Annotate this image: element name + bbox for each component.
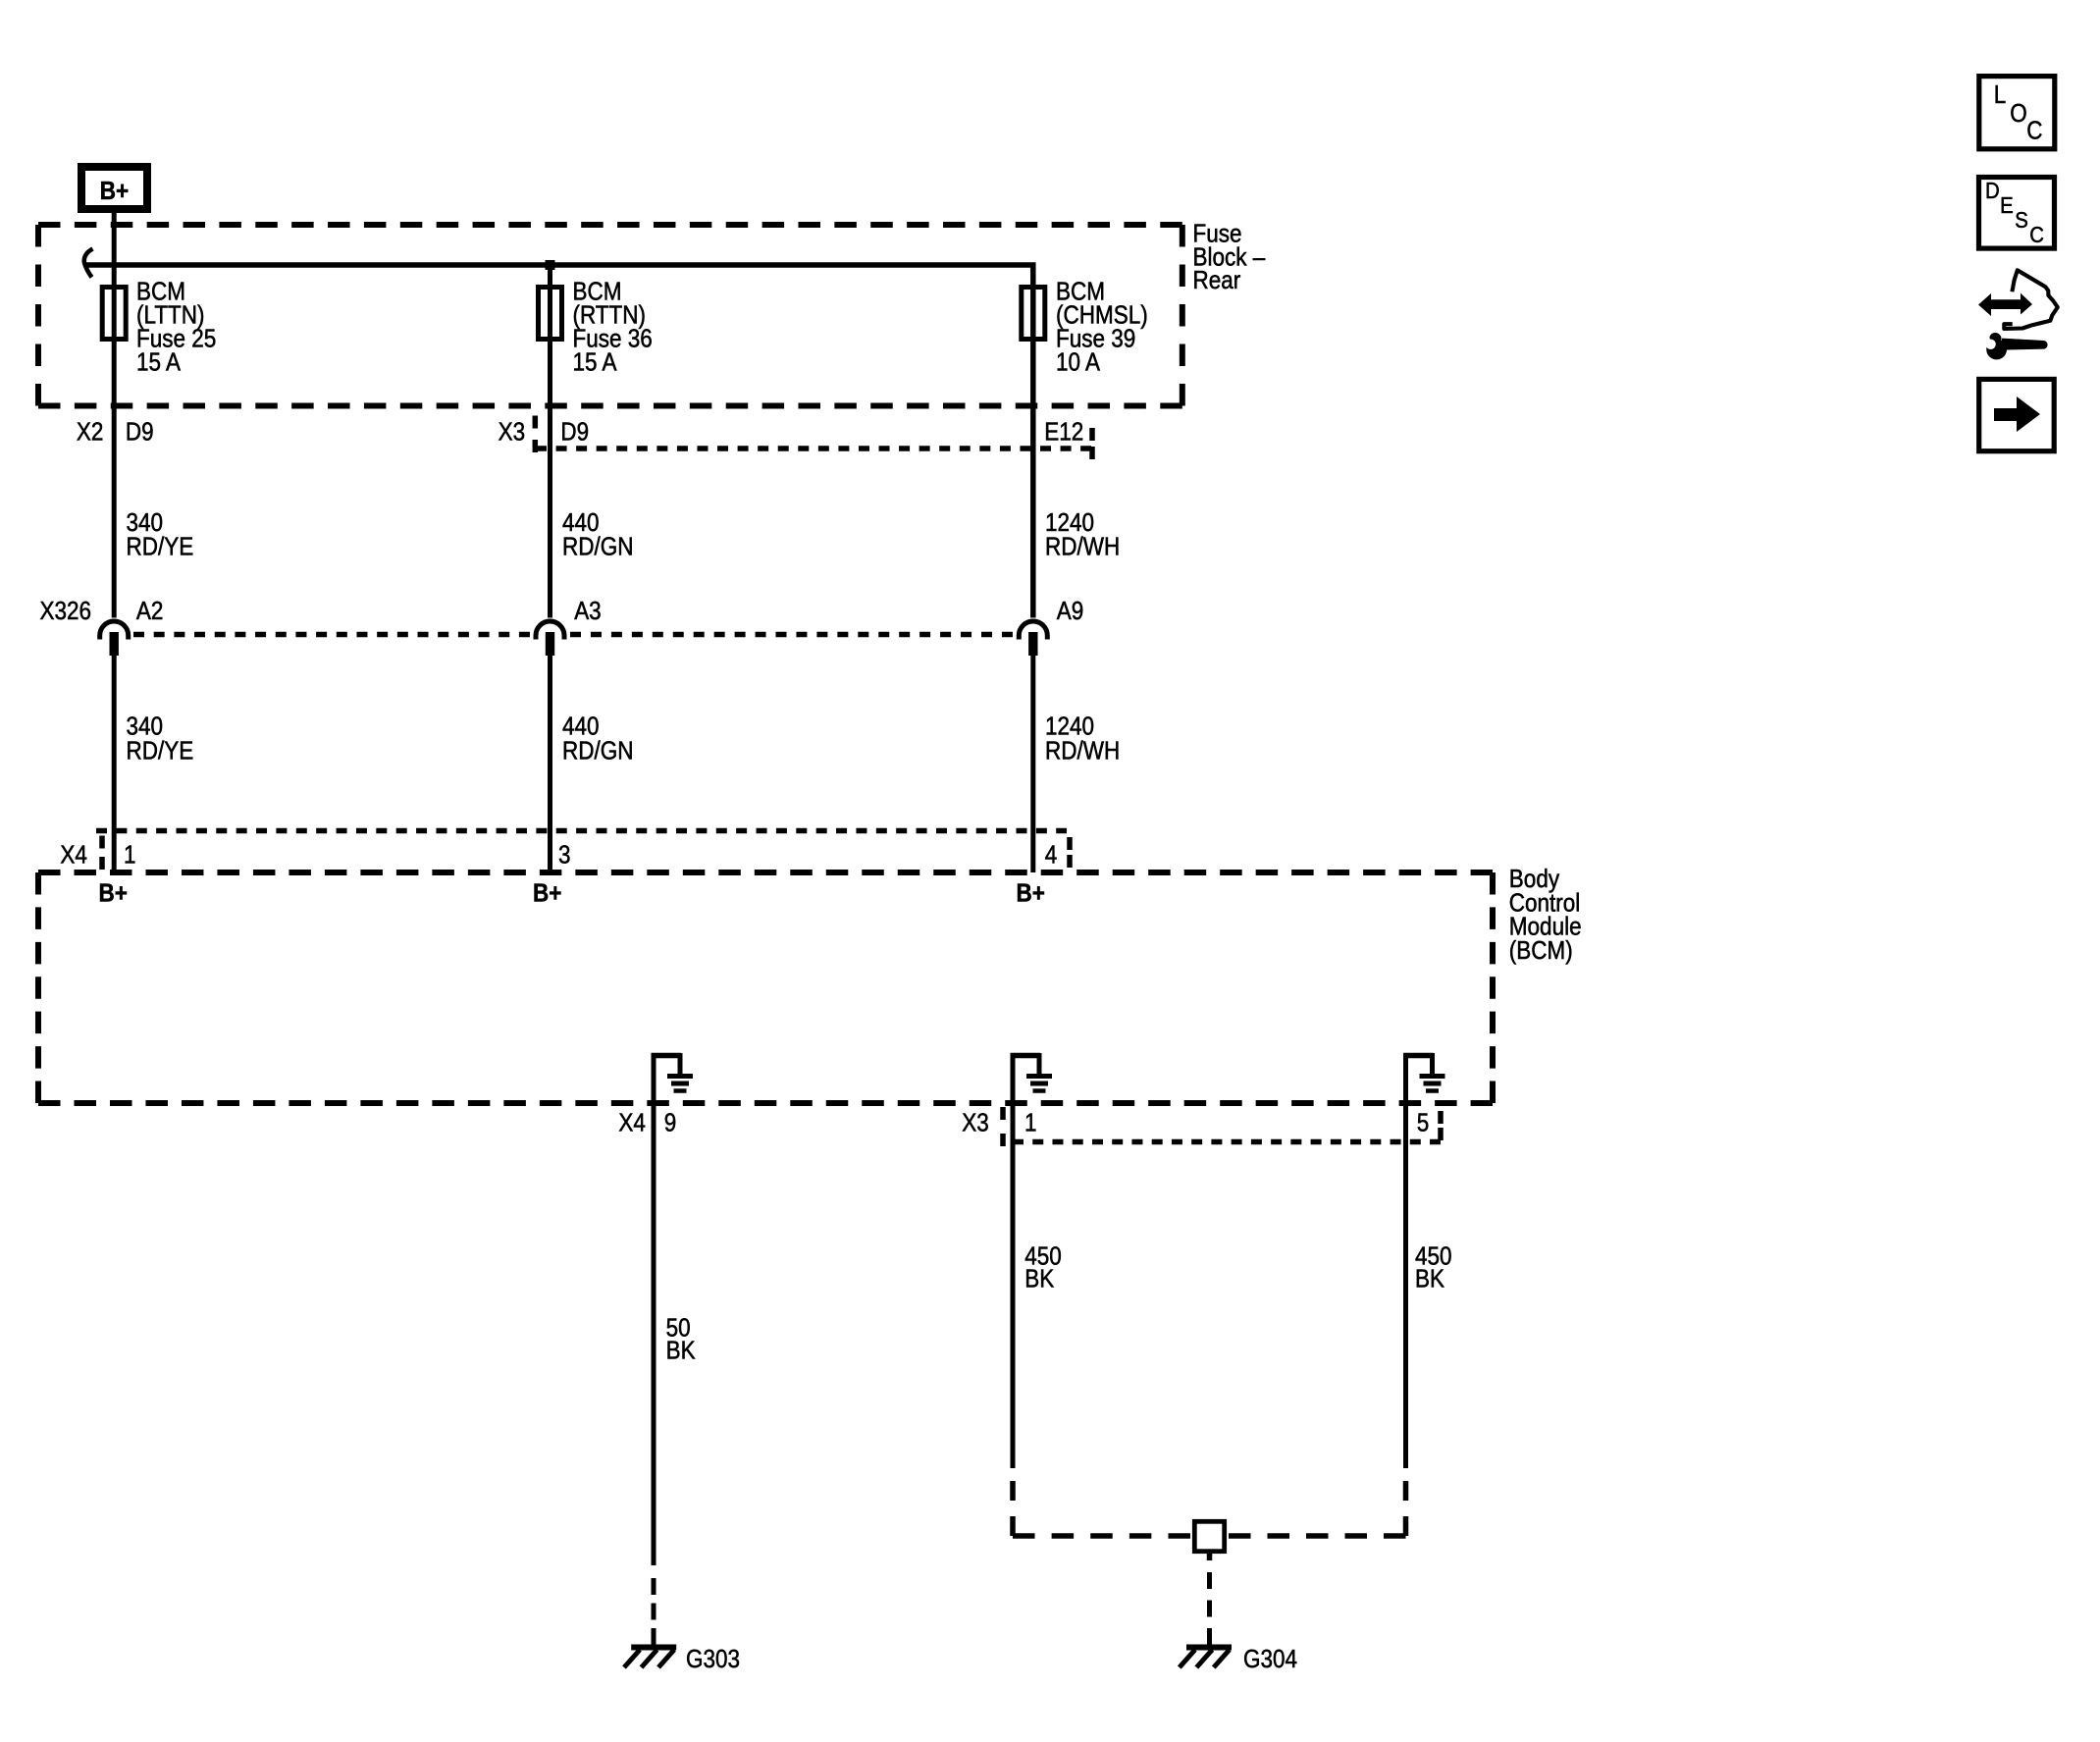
svg-text:15 A: 15 A xyxy=(573,349,618,377)
svg-text:X3: X3 xyxy=(962,1110,989,1137)
svg-text:(BCM): (BCM) xyxy=(1509,937,1573,965)
svg-text:L: L xyxy=(1994,81,2007,109)
svg-text:BK: BK xyxy=(1415,1266,1444,1293)
svg-text:E: E xyxy=(2000,192,2014,218)
svg-text:4: 4 xyxy=(1045,842,1058,870)
svg-text:RD/WH: RD/WH xyxy=(1045,534,1120,561)
svg-text:340: 340 xyxy=(127,713,164,741)
svg-text:Rear: Rear xyxy=(1193,267,1241,294)
svg-text:BK: BK xyxy=(1024,1266,1054,1293)
svg-text:O: O xyxy=(2010,100,2027,128)
svg-text:RD/GN: RD/GN xyxy=(562,738,634,765)
svg-text:1: 1 xyxy=(124,842,136,870)
svg-text:G303: G303 xyxy=(686,1646,740,1673)
svg-text:RD/WH: RD/WH xyxy=(1045,738,1120,765)
svg-text:S: S xyxy=(2015,207,2028,233)
svg-text:A2: A2 xyxy=(136,598,164,625)
svg-text:X3: X3 xyxy=(499,419,525,447)
svg-text:X2: X2 xyxy=(77,419,104,447)
svg-text:G304: G304 xyxy=(1243,1646,1297,1673)
svg-text:D: D xyxy=(1985,178,2000,203)
svg-text:9: 9 xyxy=(664,1110,677,1137)
svg-text:C: C xyxy=(2026,117,2042,144)
svg-text:1240: 1240 xyxy=(1045,713,1094,741)
svg-text:RD/YE: RD/YE xyxy=(127,738,194,765)
svg-text:C: C xyxy=(2029,222,2044,247)
svg-text:RD/YE: RD/YE xyxy=(127,534,194,561)
svg-text:B+: B+ xyxy=(100,178,129,205)
svg-text:X4: X4 xyxy=(618,1110,646,1137)
svg-text:B+: B+ xyxy=(533,880,561,908)
svg-text:RD/GN: RD/GN xyxy=(562,534,634,561)
svg-text:5: 5 xyxy=(1417,1110,1430,1137)
svg-text:10 A: 10 A xyxy=(1056,349,1101,377)
svg-text:3: 3 xyxy=(558,842,571,870)
svg-text:1: 1 xyxy=(1024,1110,1037,1137)
svg-text:D9: D9 xyxy=(126,419,154,447)
svg-text:X4: X4 xyxy=(60,842,87,870)
svg-text:B+: B+ xyxy=(1017,880,1045,908)
svg-text:A9: A9 xyxy=(1057,598,1084,625)
svg-text:440: 440 xyxy=(562,713,600,741)
svg-text:BK: BK xyxy=(666,1338,696,1365)
svg-text:15 A: 15 A xyxy=(136,349,182,377)
svg-text:X326: X326 xyxy=(40,598,92,625)
svg-text:D9: D9 xyxy=(560,419,589,447)
svg-text:E12: E12 xyxy=(1044,419,1083,447)
svg-text:B+: B+ xyxy=(99,880,128,908)
svg-text:A3: A3 xyxy=(574,598,602,625)
